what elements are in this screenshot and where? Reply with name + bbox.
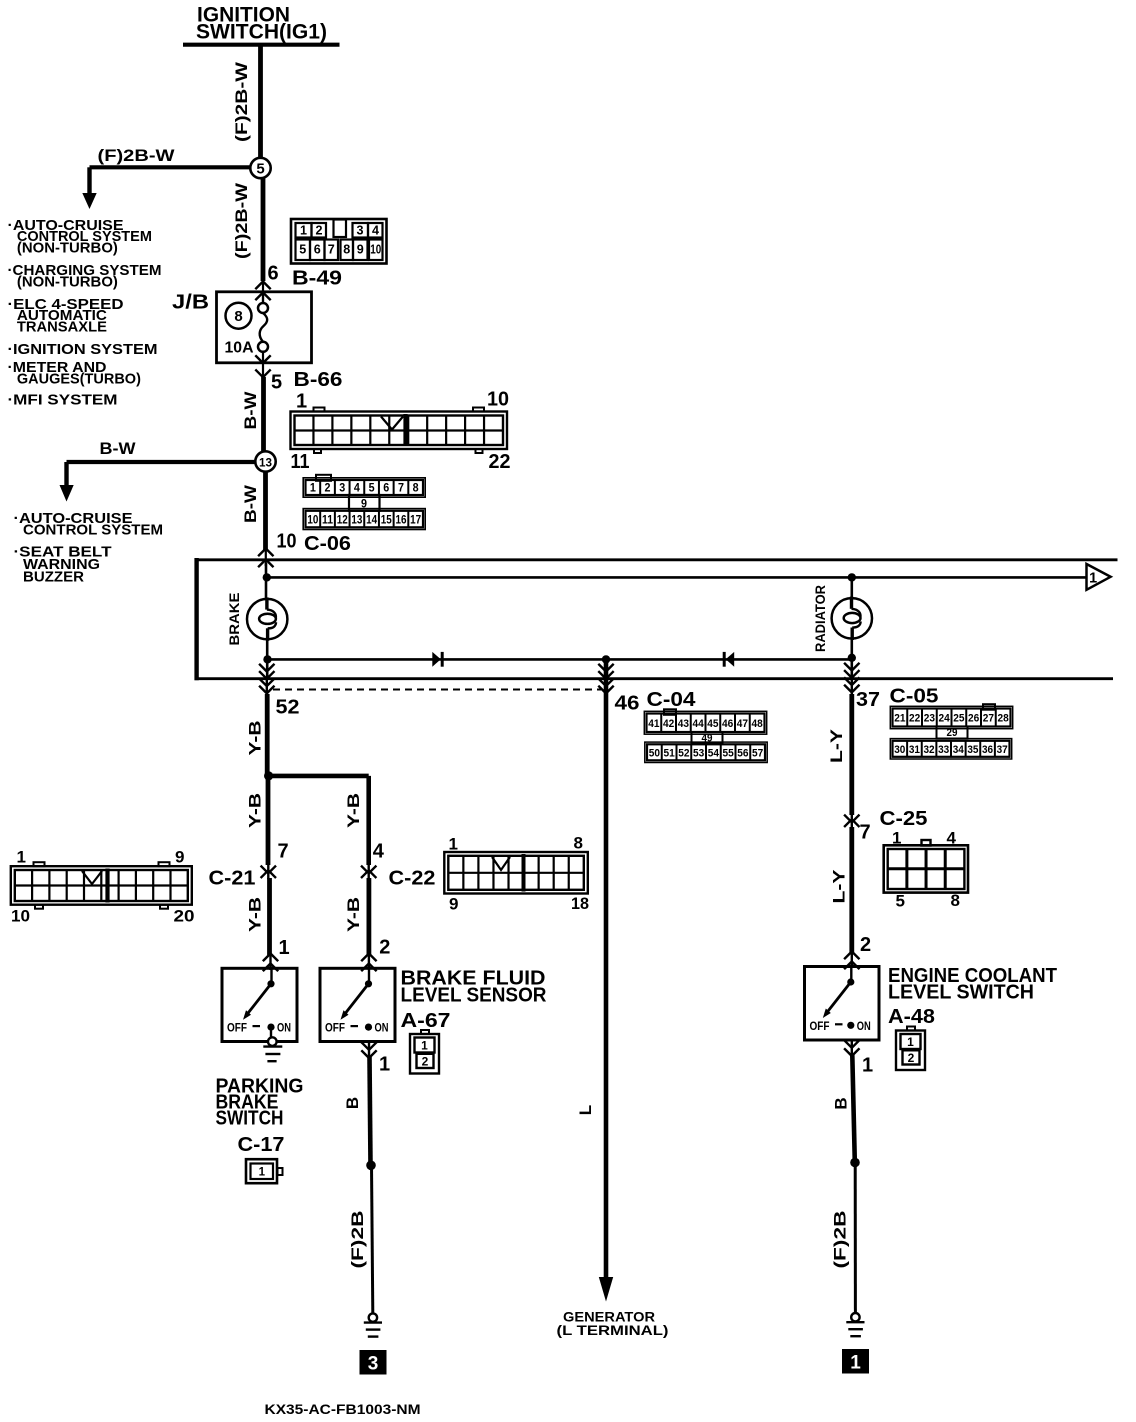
connector crossing pin 52 <box>266 678 268 697</box>
svg-text:4: 4 <box>354 481 360 495</box>
splice dot right <box>850 1158 860 1168</box>
brake fluid level switch <box>320 968 395 1041</box>
wire Y-B C-22 to brake fluid switch <box>366 878 371 955</box>
splice dot <box>366 1161 376 1171</box>
svg-text:5: 5 <box>256 161 264 178</box>
wire brake lamp to diode line <box>266 639 269 678</box>
svg-text:10: 10 <box>370 242 381 257</box>
wire branch B-W to auto-cruise/seat belt <box>67 460 256 464</box>
wire (F)2B-W from ignition switch <box>258 46 263 159</box>
svg-text:10A: 10A <box>225 340 254 357</box>
svg-text:1: 1 <box>279 937 290 959</box>
svg-text:ON: ON <box>277 1023 291 1035</box>
svg-text:6: 6 <box>383 481 389 495</box>
svg-text:57: 57 <box>752 747 763 759</box>
svg-text:1: 1 <box>850 1353 861 1374</box>
svg-text:7: 7 <box>398 481 404 495</box>
wire B-W junction13 to C-06 <box>263 471 268 550</box>
svg-text:32: 32 <box>924 744 935 756</box>
dashed connector boundary line <box>273 689 601 691</box>
wire B coolant to splice <box>852 1055 855 1162</box>
svg-text:44: 44 <box>693 718 705 730</box>
svg-text:SWITCH(IG1): SWITCH(IG1) <box>196 21 327 44</box>
svg-text:4: 4 <box>373 841 385 863</box>
connector B-66 <box>291 408 508 454</box>
svg-text:10: 10 <box>307 512 318 526</box>
svg-text:9: 9 <box>449 895 458 914</box>
brake warning lamp <box>247 597 287 640</box>
svg-text:14: 14 <box>366 512 377 526</box>
svg-text:48: 48 <box>752 718 763 730</box>
svg-text:30: 30 <box>894 744 905 756</box>
connector C-21 <box>11 862 192 909</box>
connector crossing C-22 pin 4 <box>361 866 376 874</box>
engine coolant level switch <box>805 967 880 1041</box>
svg-text:20: 20 <box>174 907 195 926</box>
wire top line to radiator lamp <box>850 577 853 598</box>
svg-text:OFF: OFF <box>325 1023 345 1035</box>
svg-text:42: 42 <box>663 718 674 730</box>
svg-text:1: 1 <box>259 1167 266 1179</box>
svg-text:2: 2 <box>316 223 323 238</box>
combination meter box outline <box>194 558 198 680</box>
svg-text:3: 3 <box>368 1354 379 1375</box>
svg-text:9: 9 <box>357 242 364 257</box>
svg-text:1: 1 <box>310 481 316 495</box>
svg-text:(NON-TURBO): (NON-TURBO) <box>17 240 118 257</box>
svg-text:(F)2B-W: (F)2B-W <box>232 61 251 142</box>
svg-text:LEVEL SENSOR: LEVEL SENSOR <box>401 985 548 1007</box>
svg-text:(L TERMINAL): (L TERMINAL) <box>557 1323 669 1338</box>
svg-text:10: 10 <box>487 389 509 411</box>
svg-text:10: 10 <box>11 907 30 926</box>
svg-text:2: 2 <box>908 1051 915 1065</box>
svg-text:B: B <box>832 1097 851 1109</box>
svg-text:Y-B: Y-B <box>344 897 363 932</box>
connector crossing coolant pin 2 <box>844 952 859 960</box>
svg-text:35: 35 <box>967 744 978 756</box>
svg-text:6: 6 <box>314 242 321 257</box>
svg-text:GAUGES(TURBO): GAUGES(TURBO) <box>17 371 141 388</box>
svg-text:25: 25 <box>953 713 964 725</box>
svg-text:C-22: C-22 <box>389 868 436 890</box>
svg-text:7: 7 <box>278 841 289 863</box>
svg-text:31: 31 <box>909 744 920 756</box>
svg-text:C-05: C-05 <box>890 686 939 708</box>
svg-text:CONTROL SYSTEM: CONTROL SYSTEM <box>23 522 163 539</box>
wire B brake fluid to splice <box>370 1057 371 1165</box>
connector crossing B-49 pin 6 <box>255 282 270 290</box>
svg-text:5: 5 <box>369 481 375 495</box>
connector crossing coolant exit pin 1 <box>851 1040 853 1058</box>
connector crossing C-06 pin 10 <box>258 549 273 557</box>
junction dot radiator/diode line <box>848 654 856 662</box>
svg-text:53: 53 <box>693 747 704 759</box>
svg-text:1: 1 <box>907 1035 914 1049</box>
junction block J/B box <box>217 292 312 363</box>
svg-text:28: 28 <box>998 713 1009 725</box>
junction dot brake/top wire <box>263 573 271 581</box>
svg-text:1: 1 <box>862 1055 873 1077</box>
connector crossing brake fluid pin 2 <box>361 954 376 962</box>
connector crossing pin 46 <box>605 678 607 697</box>
svg-text:56: 56 <box>737 747 748 759</box>
svg-text:TRANSAXLE: TRANSAXLE <box>17 318 107 335</box>
svg-text:RADIATOR: RADIATOR <box>813 585 828 652</box>
svg-text:(NON-TURBO): (NON-TURBO) <box>17 273 118 290</box>
svg-text:8: 8 <box>951 891 960 910</box>
svg-text:ON: ON <box>375 1023 389 1035</box>
svg-text:BRAKE: BRAKE <box>227 593 242 646</box>
svg-text:6: 6 <box>268 263 279 285</box>
wire Y-B branch horizontal <box>267 774 369 779</box>
svg-text:55: 55 <box>723 747 734 759</box>
ground reference 1 <box>842 1349 869 1374</box>
junction dot radiator/top wire <box>848 573 856 581</box>
svg-text:34: 34 <box>953 744 965 756</box>
svg-text:7: 7 <box>328 242 335 257</box>
svg-text:·IGNITION SYSTEM: ·IGNITION SYSTEM <box>8 341 158 358</box>
svg-text:41: 41 <box>648 718 659 730</box>
svg-text:OFF: OFF <box>227 1023 247 1035</box>
svg-text:C-25: C-25 <box>880 808 928 830</box>
connector B-49 <box>291 219 387 264</box>
svg-text:45: 45 <box>707 718 718 730</box>
ground symbol right <box>851 1313 859 1321</box>
svg-text:50: 50 <box>649 747 660 759</box>
svg-text:B-W: B-W <box>100 439 137 458</box>
svg-text:10: 10 <box>277 531 297 553</box>
svg-text:46: 46 <box>722 718 733 730</box>
svg-text:1: 1 <box>449 835 458 854</box>
svg-text:B-W: B-W <box>241 484 260 523</box>
svg-text:5: 5 <box>299 242 306 257</box>
wire Y-B branch down to C-22 <box>366 776 371 865</box>
svg-text:(F)2B: (F)2B <box>831 1211 850 1269</box>
svg-text:2: 2 <box>325 481 331 495</box>
connector C-17 icon <box>246 1159 277 1183</box>
svg-text:·MFI SYSTEM: ·MFI SYSTEM <box>8 392 118 409</box>
svg-text:KX35-AC-FB1003-NM: KX35-AC-FB1003-NM <box>265 1402 421 1417</box>
wire (F)2B-W junction5 to J/B <box>261 178 266 282</box>
svg-text:36: 36 <box>982 744 993 756</box>
svg-text:9: 9 <box>175 848 184 867</box>
fuse number circle 8 <box>226 303 252 329</box>
connector crossing brake fluid exit pin 1 <box>368 1042 370 1061</box>
off-page arrow 1 <box>1087 564 1111 590</box>
svg-text:1: 1 <box>379 1054 390 1076</box>
svg-text:2: 2 <box>860 934 871 956</box>
svg-text:37: 37 <box>997 744 1008 756</box>
wire Y-B pin52 down <box>265 694 270 776</box>
wire Y-B C-21 to parking brake switch <box>267 878 272 955</box>
arrowhead to generator <box>599 1277 613 1302</box>
svg-text:C-04: C-04 <box>647 689 697 711</box>
svg-text:52: 52 <box>276 697 300 719</box>
parking brake switch <box>222 968 297 1041</box>
svg-text:37: 37 <box>856 689 880 711</box>
svg-text:Y-B: Y-B <box>246 793 265 828</box>
connector A-48 icon <box>896 1031 925 1071</box>
svg-text:(F)2B: (F)2B <box>348 1211 367 1269</box>
wire B-W J/B to junction 13 <box>261 377 266 452</box>
svg-text:8: 8 <box>343 242 350 257</box>
svg-text:1: 1 <box>892 829 901 848</box>
junction circle 13 <box>255 451 275 471</box>
junction circle 5 <box>250 158 270 178</box>
arrowhead to destination list 2 <box>60 485 74 502</box>
connector C-06 <box>303 475 425 530</box>
diode D2 (radiator side) <box>726 652 735 667</box>
svg-text:L-Y: L-Y <box>827 728 846 763</box>
svg-text:23: 23 <box>924 713 935 725</box>
svg-text:1: 1 <box>17 848 26 867</box>
connector crossing pin 37 <box>851 678 853 697</box>
svg-text:5: 5 <box>896 892 905 911</box>
svg-text:1: 1 <box>421 1039 428 1053</box>
wire L-Y C-25 to coolant switch <box>849 827 854 953</box>
svg-text:2: 2 <box>422 1054 429 1068</box>
svg-text:4: 4 <box>947 829 957 848</box>
svg-text:52: 52 <box>678 747 689 759</box>
svg-text:11: 11 <box>291 451 310 473</box>
svg-text:21: 21 <box>894 713 905 725</box>
wire Y-B to C-21 <box>266 773 271 865</box>
svg-text:18: 18 <box>571 894 589 913</box>
svg-text:1: 1 <box>296 391 307 413</box>
connector crossing C-25 pin 7 <box>844 815 859 823</box>
svg-text:C-17: C-17 <box>238 1134 285 1156</box>
connector C-22 <box>444 852 588 894</box>
svg-text:8: 8 <box>234 308 242 325</box>
svg-text:ON: ON <box>857 1021 871 1033</box>
svg-text:16: 16 <box>395 512 406 526</box>
svg-text:12: 12 <box>337 512 348 526</box>
wire L-Y pin37 down <box>849 694 854 815</box>
svg-text:15: 15 <box>381 512 392 526</box>
svg-text:8: 8 <box>574 834 583 853</box>
svg-text:2: 2 <box>379 937 390 959</box>
svg-text:SWITCH: SWITCH <box>216 1108 284 1130</box>
wire C-06 to brake lamp <box>265 563 268 600</box>
wire (F)2B to ground right <box>854 1162 857 1313</box>
svg-text:5: 5 <box>271 372 282 394</box>
arrowhead to destination list <box>82 193 96 209</box>
svg-text:L-Y: L-Y <box>829 869 848 904</box>
connector C-05 <box>890 704 1012 759</box>
svg-text:22: 22 <box>489 451 511 473</box>
junction dot Y-B split <box>264 771 273 780</box>
junction dot brake/diode line <box>263 655 271 663</box>
svg-text:24: 24 <box>939 713 951 725</box>
connector crossing parking brake pin 1 <box>263 954 278 962</box>
svg-text:29: 29 <box>947 727 958 739</box>
svg-text:33: 33 <box>938 744 949 756</box>
svg-text:7: 7 <box>860 822 871 844</box>
svg-text:Y-B: Y-B <box>246 897 265 932</box>
svg-text:BUZZER: BUZZER <box>23 569 84 586</box>
radiator warning lamp <box>832 597 872 640</box>
svg-text:B-66: B-66 <box>294 369 343 391</box>
ground reference 3 <box>360 1350 387 1375</box>
svg-text:B-49: B-49 <box>292 268 342 290</box>
svg-text:J/B: J/B <box>172 292 209 314</box>
diode line <box>267 658 852 661</box>
wire L diode line to generator <box>604 659 609 1279</box>
svg-text:3: 3 <box>339 481 345 495</box>
svg-text:1: 1 <box>300 223 307 238</box>
svg-text:54: 54 <box>708 747 720 759</box>
svg-text:B-W: B-W <box>241 390 260 429</box>
svg-text:51: 51 <box>664 747 675 759</box>
connector A-67 icon <box>410 1034 439 1074</box>
wire to off-page arrow <box>266 576 1087 579</box>
connector C-25 <box>884 840 968 893</box>
svg-text:C-06: C-06 <box>304 533 351 555</box>
svg-text:8: 8 <box>413 481 419 495</box>
svg-text:26: 26 <box>968 713 979 725</box>
diode D1 (brake side) <box>432 652 441 667</box>
fuse 10A <box>262 293 264 303</box>
svg-text:22: 22 <box>909 713 920 725</box>
svg-text:3: 3 <box>357 223 364 238</box>
connector C-04 <box>644 709 767 762</box>
parking brake switch ground <box>270 1027 272 1038</box>
svg-text:11: 11 <box>322 512 333 526</box>
connector crossing B-66 pin 5 <box>255 355 270 363</box>
wire branch to auto-cruise (F)2B-W <box>90 165 251 169</box>
svg-text:(F)2B-W: (F)2B-W <box>232 182 251 259</box>
svg-text:46: 46 <box>615 693 640 715</box>
wire radiator lamp to diode line <box>850 638 853 678</box>
svg-text:B: B <box>343 1097 362 1109</box>
connector crossing C-21 pin 7 <box>261 866 276 874</box>
wire (F)2B to ground <box>372 1165 373 1313</box>
ground symbol left <box>369 1313 377 1321</box>
svg-text:43: 43 <box>678 718 689 730</box>
svg-text:A-67: A-67 <box>401 1010 451 1032</box>
svg-text:C-21: C-21 <box>209 868 256 890</box>
svg-text:13: 13 <box>351 512 362 526</box>
svg-text:4: 4 <box>372 223 380 238</box>
svg-text:A-48: A-48 <box>888 1006 935 1028</box>
svg-text:47: 47 <box>737 718 748 730</box>
svg-text:LEVEL SWITCH: LEVEL SWITCH <box>888 982 1034 1004</box>
svg-text:17: 17 <box>410 512 421 526</box>
svg-text:27: 27 <box>983 713 994 725</box>
svg-text:(F)2B-W: (F)2B-W <box>98 146 176 165</box>
svg-text:OFF: OFF <box>810 1021 830 1033</box>
junction dot generator/diode line <box>602 655 610 663</box>
svg-text:1: 1 <box>1089 571 1097 587</box>
ignition switch bus bar <box>183 43 340 47</box>
svg-text:13: 13 <box>259 456 272 470</box>
svg-text:Y-B: Y-B <box>246 721 265 756</box>
svg-text:L: L <box>576 1105 595 1115</box>
svg-text:Y-B: Y-B <box>344 793 363 828</box>
